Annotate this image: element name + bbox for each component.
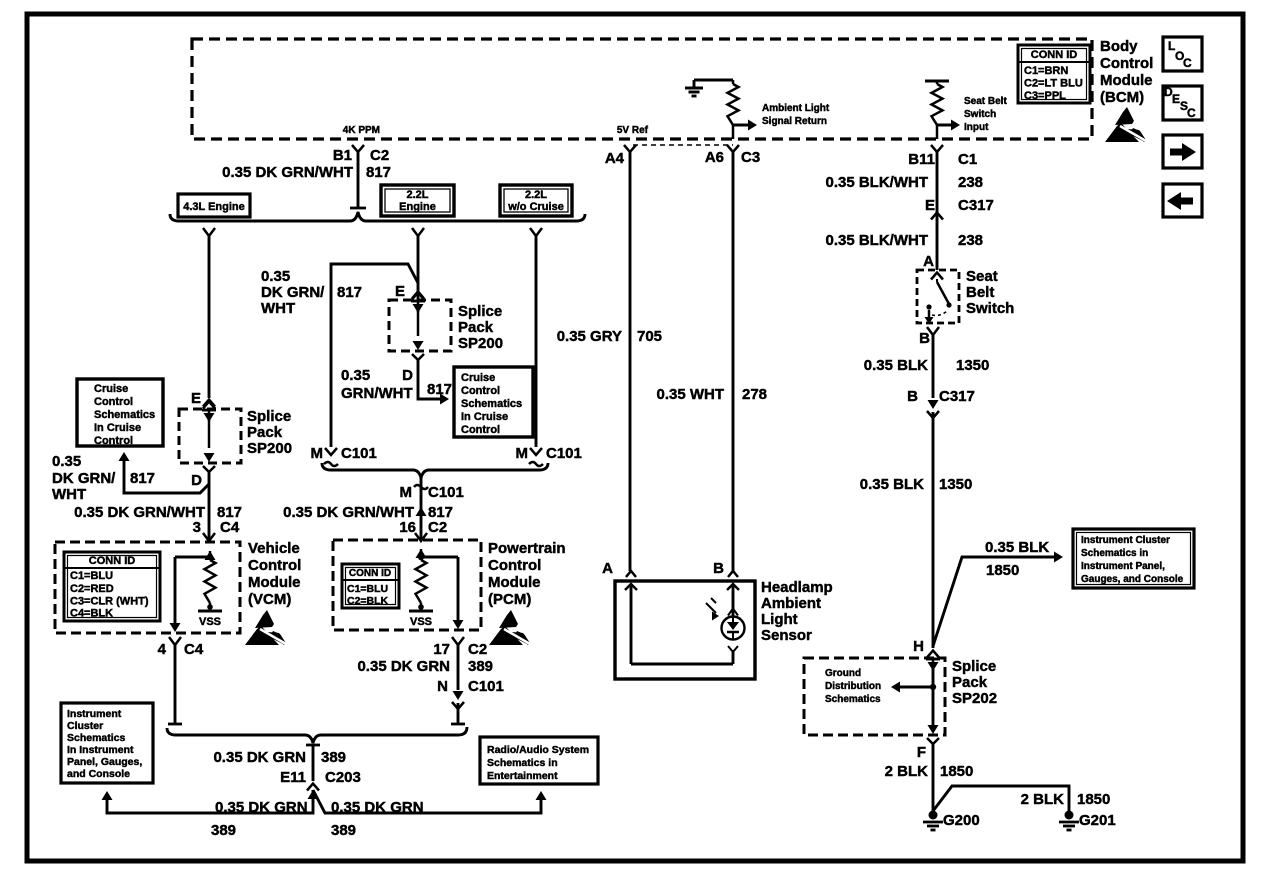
svg-text:Cruise: Cruise <box>461 372 495 384</box>
svg-text:F: F <box>917 744 926 761</box>
svg-text:1850: 1850 <box>940 763 973 780</box>
svg-text:5V Ref: 5V Ref <box>617 125 649 136</box>
svg-text:Schematics in: Schematics in <box>487 757 558 769</box>
svg-text:2.2L: 2.2L <box>406 189 428 201</box>
svg-text:Radio/Audio System: Radio/Audio System <box>487 744 589 756</box>
svg-text:CONN ID: CONN ID <box>349 568 391 579</box>
svg-text:C317: C317 <box>958 197 994 214</box>
svg-text:0.35 BLK: 0.35 BLK <box>864 357 928 374</box>
svg-text:0.35 BLK/WHT: 0.35 BLK/WHT <box>825 232 928 249</box>
svg-text:H: H <box>913 638 924 655</box>
svg-text:Seat: Seat <box>966 268 998 285</box>
svg-text:(VCM): (VCM) <box>248 591 291 608</box>
svg-text:B1: B1 <box>333 147 352 164</box>
svg-text:817: 817 <box>337 284 362 301</box>
svg-text:1350: 1350 <box>939 476 972 493</box>
svg-text:Powertrain: Powertrain <box>488 540 566 557</box>
svg-text:VSS: VSS <box>410 616 432 628</box>
svg-text:278: 278 <box>742 386 767 403</box>
svg-text:2 BLK: 2 BLK <box>1021 791 1065 808</box>
svg-text:(BCM): (BCM) <box>1100 89 1144 106</box>
svg-text:E: E <box>191 390 201 407</box>
svg-text:Switch: Switch <box>966 300 1014 317</box>
svg-text:C101: C101 <box>468 678 504 695</box>
svg-text:16: 16 <box>399 519 416 536</box>
svg-text:C4: C4 <box>220 519 240 536</box>
svg-text:D: D <box>191 472 202 489</box>
svg-text:Instrument Panel,: Instrument Panel, <box>1081 561 1165 572</box>
svg-text:1350: 1350 <box>956 357 989 374</box>
svg-text:Instrument Cluster: Instrument Cluster <box>1081 535 1170 546</box>
svg-text:Schematics in: Schematics in <box>1081 548 1148 559</box>
svg-text:0.35: 0.35 <box>341 367 370 384</box>
svg-text:C2=BLK: C2=BLK <box>347 595 389 607</box>
svg-text:Switch: Switch <box>964 109 996 120</box>
svg-text:C3=PPL: C3=PPL <box>1024 90 1066 102</box>
svg-text:389: 389 <box>321 749 346 766</box>
svg-text:0.35 DK GRN/WHT: 0.35 DK GRN/WHT <box>283 504 414 521</box>
svg-text:705: 705 <box>637 328 662 345</box>
svg-text:Splice: Splice <box>247 408 291 425</box>
svg-text:0.35 DK GRN: 0.35 DK GRN <box>215 799 308 816</box>
svg-text:Module: Module <box>248 574 301 591</box>
svg-text:Body: Body <box>1100 38 1138 55</box>
svg-text:G201: G201 <box>1079 812 1116 829</box>
svg-text:Schematics: Schematics <box>461 398 522 410</box>
svg-text:C2: C2 <box>370 147 389 164</box>
svg-text:0.35 GRY: 0.35 GRY <box>557 328 622 345</box>
svg-text:0.35: 0.35 <box>52 453 81 470</box>
svg-text:C101: C101 <box>428 484 464 501</box>
svg-text:Seat Belt: Seat Belt <box>964 96 1007 107</box>
svg-text:In Cruise: In Cruise <box>94 422 141 434</box>
svg-text:389: 389 <box>211 822 236 839</box>
svg-text:Vehicle: Vehicle <box>248 540 300 557</box>
svg-text:M: M <box>400 484 413 501</box>
svg-text:G200: G200 <box>943 812 980 829</box>
svg-text:B: B <box>907 388 918 405</box>
svg-text:Splice: Splice <box>458 303 502 320</box>
svg-text:0.35 BLK: 0.35 BLK <box>985 539 1049 556</box>
svg-text:(PCM): (PCM) <box>488 591 531 608</box>
svg-text:Pack: Pack <box>247 424 283 441</box>
svg-text:Control: Control <box>461 385 500 397</box>
svg-text:WHT: WHT <box>261 300 295 317</box>
svg-text:Pack: Pack <box>458 319 494 336</box>
svg-text:3: 3 <box>193 519 201 536</box>
svg-text:0.35 BLK: 0.35 BLK <box>860 476 924 493</box>
svg-text:Engine: Engine <box>399 201 436 213</box>
svg-text:Light: Light <box>761 611 798 628</box>
svg-text:N: N <box>437 678 448 695</box>
svg-text:Ambient Light: Ambient Light <box>762 103 830 114</box>
svg-text:C1: C1 <box>958 151 977 168</box>
svg-text:A4: A4 <box>605 150 625 167</box>
svg-text:Control: Control <box>248 557 301 574</box>
svg-text:Control: Control <box>1100 55 1153 72</box>
svg-text:817: 817 <box>130 470 155 487</box>
svg-text:A: A <box>602 560 613 577</box>
svg-text:817: 817 <box>427 381 452 398</box>
svg-text:C: C <box>1183 56 1192 70</box>
svg-text:Cruise: Cruise <box>94 383 128 395</box>
svg-text:C317: C317 <box>939 388 975 405</box>
svg-text:B11: B11 <box>908 151 935 168</box>
svg-text:Distribution: Distribution <box>825 681 881 692</box>
svg-text:Belt: Belt <box>966 284 994 301</box>
svg-text:C101: C101 <box>341 445 377 462</box>
svg-text:SP200: SP200 <box>458 335 503 352</box>
svg-text:B: B <box>713 560 724 577</box>
svg-text:C4=BLK: C4=BLK <box>70 608 113 620</box>
svg-text:Input: Input <box>964 122 989 133</box>
svg-text:17: 17 <box>433 641 450 658</box>
svg-text:C3=CLR (WHT): C3=CLR (WHT) <box>70 596 149 608</box>
svg-text:Control: Control <box>461 424 500 436</box>
svg-text:C4: C4 <box>184 641 204 658</box>
svg-text:0.35 DK GRN: 0.35 DK GRN <box>331 799 424 816</box>
svg-text:A: A <box>923 253 934 270</box>
svg-text:C2: C2 <box>428 519 447 536</box>
svg-text:E: E <box>925 197 935 214</box>
svg-text:0.35 DK GRN: 0.35 DK GRN <box>357 658 450 675</box>
svg-text:0.35 DK GRN/WHT: 0.35 DK GRN/WHT <box>222 164 353 181</box>
svg-text:Entertainment: Entertainment <box>487 770 558 782</box>
svg-text:0.35 BLK/WHT: 0.35 BLK/WHT <box>825 174 928 191</box>
svg-text:DK GRN/: DK GRN/ <box>261 284 325 301</box>
svg-text:C1=BLU: C1=BLU <box>347 583 388 595</box>
svg-text:Headlamp: Headlamp <box>761 579 833 596</box>
svg-text:Gauges, and Console: Gauges, and Console <box>1081 574 1184 585</box>
svg-text:0.35: 0.35 <box>261 268 290 285</box>
svg-text:B: B <box>919 330 930 347</box>
svg-text:CONN ID: CONN ID <box>1031 49 1078 61</box>
svg-text:Sensor: Sensor <box>761 627 812 644</box>
svg-text:C2=RED: C2=RED <box>70 583 114 595</box>
svg-text:M: M <box>311 445 324 462</box>
svg-text:C1=BRN: C1=BRN <box>1024 65 1068 77</box>
svg-text:Schematics: Schematics <box>825 694 881 705</box>
svg-text:238: 238 <box>958 174 983 191</box>
svg-text:C1=BLU: C1=BLU <box>70 570 113 582</box>
svg-text:SP202: SP202 <box>952 690 997 707</box>
svg-text:4K PPM: 4K PPM <box>343 125 380 136</box>
svg-text:Control: Control <box>94 435 133 447</box>
svg-text:M: M <box>516 445 529 462</box>
svg-text:C: C <box>1187 106 1196 120</box>
svg-text:E: E <box>395 283 405 300</box>
svg-text:and Console: and Console <box>67 768 130 780</box>
svg-text:Splice: Splice <box>952 658 996 675</box>
svg-text:4: 4 <box>158 641 167 658</box>
svg-text:0.35 WHT: 0.35 WHT <box>656 386 724 403</box>
svg-text:817: 817 <box>366 164 391 181</box>
svg-text:CONN ID: CONN ID <box>89 555 136 567</box>
svg-text:Module: Module <box>1100 72 1153 89</box>
svg-text:GRN/WHT: GRN/WHT <box>341 385 413 402</box>
svg-text:1850: 1850 <box>986 562 1019 579</box>
svg-text:0.35 DK GRN: 0.35 DK GRN <box>213 749 306 766</box>
svg-text:w/o Cruise: w/o Cruise <box>507 201 564 213</box>
svg-text:C203: C203 <box>325 769 361 786</box>
svg-text:Instrument: Instrument <box>67 708 122 720</box>
svg-text:C2=LT BLU: C2=LT BLU <box>1024 78 1083 90</box>
svg-text:2 BLK: 2 BLK <box>885 763 929 780</box>
svg-text:389: 389 <box>468 658 493 675</box>
svg-text:D: D <box>402 367 413 384</box>
svg-text:Ground: Ground <box>825 668 861 679</box>
svg-text:Schematics: Schematics <box>94 409 155 421</box>
svg-text:0.35 DK GRN/WHT: 0.35 DK GRN/WHT <box>74 504 205 521</box>
svg-text:E11: E11 <box>280 769 306 786</box>
svg-text:Panel, Gauges,: Panel, Gauges, <box>67 756 142 768</box>
svg-text:DK GRN/: DK GRN/ <box>52 470 116 487</box>
svg-text:E: E <box>1172 92 1180 106</box>
svg-text:C101: C101 <box>546 445 582 462</box>
svg-text:SP200: SP200 <box>247 440 292 457</box>
svg-text:Signal Return: Signal Return <box>762 116 827 127</box>
svg-text:C2: C2 <box>468 641 487 658</box>
svg-text:Cluster: Cluster <box>67 720 103 732</box>
svg-text:WHT: WHT <box>52 486 86 503</box>
svg-text:In Cruise: In Cruise <box>461 411 508 423</box>
svg-text:Schematics: Schematics <box>67 732 126 744</box>
svg-text:2.2L: 2.2L <box>525 189 547 201</box>
svg-text:A6: A6 <box>705 149 724 166</box>
svg-text:C3: C3 <box>741 149 760 166</box>
svg-text:Module: Module <box>488 574 541 591</box>
svg-text:Ambient: Ambient <box>761 595 821 612</box>
svg-text:Control: Control <box>94 396 133 408</box>
svg-text:Pack: Pack <box>952 674 988 691</box>
svg-text:238: 238 <box>958 232 983 249</box>
svg-text:4.3L Engine: 4.3L Engine <box>183 201 245 213</box>
svg-text:In Instrument: In Instrument <box>67 744 134 756</box>
svg-text:389: 389 <box>331 822 356 839</box>
svg-text:VSS: VSS <box>199 616 221 628</box>
svg-text:1850: 1850 <box>1077 791 1110 808</box>
svg-text:Control: Control <box>488 557 541 574</box>
